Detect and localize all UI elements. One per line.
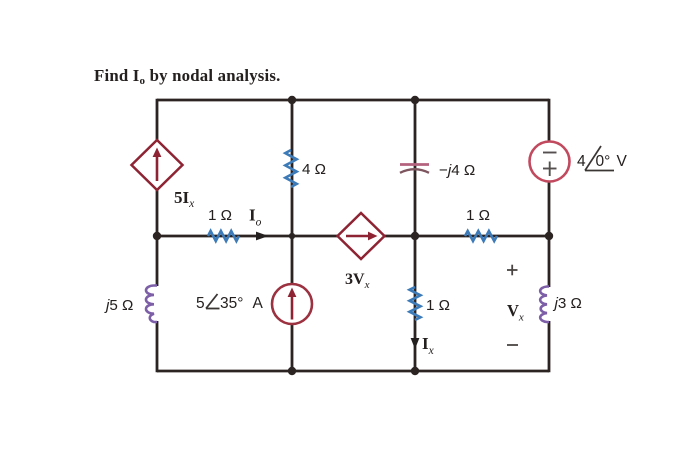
wire left vertical upper (to 5Ix source) <box>156 99 159 143</box>
dependent voltage source 3Vx (diamond) <box>338 213 385 259</box>
svg-text:j3 Ω: j3 Ω <box>553 295 582 312</box>
node dot bottom (415,371) <box>411 367 419 375</box>
wire middle horizontal <box>157 235 549 238</box>
wire top horizontal <box>157 99 549 102</box>
svg-text:Vx: Vx <box>507 301 524 324</box>
svg-text:1 Ω: 1 Ω <box>208 207 232 224</box>
dependent current source 5Ix (diamond) <box>132 140 183 190</box>
current source 5/35 A (circle with up arrow) <box>272 284 312 324</box>
resistor 1 ohm (vertical, x=415) <box>410 287 421 320</box>
svg-text:3Vx: 3Vx <box>345 271 370 291</box>
svg-text:Ix: Ix <box>422 334 435 357</box>
svg-text:−j4 Ω: −j4 Ω <box>439 162 475 179</box>
wire right vertical bottom stub <box>548 321 551 372</box>
node dot middle-left (157,236) <box>153 232 161 240</box>
arrow Ix (downward on x=415 wire) <box>411 338 420 349</box>
svg-text:A: A <box>253 295 264 312</box>
node dot top at (292,100) <box>288 96 296 104</box>
label 5 angle 35 A <box>196 294 264 312</box>
svg-text:Find Io by nodal analysis.: Find Io by nodal analysis. <box>94 66 281 87</box>
inductor j5 ohm <box>146 286 157 323</box>
svg-text:1 Ω: 1 Ω <box>426 297 450 314</box>
capacitor -j4 ohm <box>400 165 429 173</box>
label minus (Vx polarity) <box>507 344 518 346</box>
node dot top at (415,100) <box>411 96 419 104</box>
inductor j3 ohm <box>540 287 549 323</box>
wire right vertical upper (to voltage source) <box>548 99 551 161</box>
node dot bottom (292,371) <box>288 367 296 375</box>
wire right vertical lower (middle node to bottom, j3 inductor gap) <box>548 236 551 287</box>
wire left vertical lower (below j5 inductor) <box>156 321 159 372</box>
svg-text:j5 Ω: j5 Ω <box>104 297 133 314</box>
wire right vertical middle (voltage source to middle node) <box>548 161 551 236</box>
resistor 1 ohm (middle-left branch) <box>208 231 239 241</box>
node dot middle-right (549,236) <box>545 232 553 240</box>
svg-text:0°: 0° <box>596 153 611 170</box>
svg-text:Io: Io <box>249 206 262 229</box>
wire third vertical at x=415 <box>414 100 417 371</box>
wire left vertical middle (5Ix source to middle node) <box>156 187 159 286</box>
arrow Io on middle wire <box>256 232 269 241</box>
node dot middle (415,236) <box>411 232 419 240</box>
resistor 4 ohm <box>285 150 296 187</box>
svg-text:4 Ω: 4 Ω <box>302 161 326 178</box>
resistor 1 ohm (middle-right branch) <box>465 231 497 241</box>
svg-text:5Ix: 5Ix <box>174 188 195 210</box>
svg-text:1 Ω: 1 Ω <box>466 207 490 224</box>
label 4 angle 0 V <box>577 146 628 171</box>
node junction (292,236) <box>289 233 295 239</box>
svg-text:V: V <box>617 153 628 170</box>
svg-text:4: 4 <box>577 153 586 170</box>
wire bottom horizontal <box>157 370 549 373</box>
voltage source 4/0 V (circle with - +) <box>530 142 570 182</box>
svg-text:35°: 35° <box>220 295 243 312</box>
svg-text:5: 5 <box>196 295 205 312</box>
wire second vertical at x=292 <box>291 100 294 371</box>
label plus (Vx polarity) <box>507 265 518 276</box>
